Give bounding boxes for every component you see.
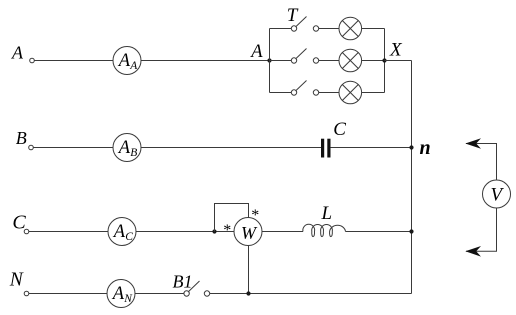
capacitor C — [321, 139, 331, 158]
wire (voltmeter bottom lead) — [466, 208, 497, 251]
wire — [346, 231, 412, 233]
svg-text:B: B — [130, 147, 137, 159]
junction dot (bank input) — [267, 58, 271, 62]
switch B1 — [184, 281, 210, 296]
wire (wattmeter to neutral) — [248, 246, 250, 294]
node A (bank input) label — [249, 42, 263, 62]
svg-text:A: A — [117, 138, 131, 158]
node N label — [9, 270, 24, 291]
svg-text:B: B — [16, 128, 27, 148]
svg-text:A: A — [112, 222, 126, 242]
svg-text:N: N — [123, 293, 133, 305]
svg-text:B1: B1 — [173, 272, 193, 292]
inductor L — [303, 224, 346, 236]
label T — [287, 5, 299, 26]
wire — [262, 231, 303, 233]
wire — [141, 60, 270, 62]
wire — [29, 293, 107, 295]
svg-text:A: A — [111, 284, 125, 304]
ammeter A_B — [113, 134, 141, 162]
wire — [135, 293, 184, 295]
wire (right bus) — [411, 61, 413, 294]
wire (voltmeter top lead) — [466, 144, 497, 181]
svg-text:C: C — [125, 231, 133, 243]
svg-text:T: T — [287, 5, 299, 26]
wire (voltage coil tap) — [215, 204, 249, 232]
wire — [362, 60, 385, 62]
label L — [321, 203, 333, 224]
junction dot (wattmeter/neutral) — [246, 291, 250, 295]
wire — [136, 231, 234, 233]
wattmeter W — [234, 218, 262, 246]
label B1 — [173, 272, 193, 292]
wire — [319, 28, 339, 30]
arrowhead (voltmeter top probe) — [465, 138, 481, 149]
svg-text:n: n — [420, 137, 431, 159]
switch (middle lamp branch) — [291, 49, 318, 64]
terminal A — [30, 58, 35, 63]
node n junction dot — [409, 145, 413, 149]
node B label — [16, 128, 27, 148]
svg-text:C: C — [333, 119, 346, 140]
asterisk (current coil) — [223, 222, 231, 239]
wire — [362, 92, 385, 94]
svg-text:A: A — [117, 51, 131, 71]
terminal C — [24, 229, 29, 234]
ammeter A_A — [113, 47, 141, 75]
wire — [270, 60, 292, 62]
node X junction dot — [382, 58, 386, 62]
node A label — [11, 43, 24, 63]
svg-text:A: A — [129, 60, 138, 72]
svg-text:N: N — [9, 270, 24, 291]
switch T — [291, 17, 318, 32]
wire — [29, 231, 108, 233]
asterisk (voltage coil) — [251, 207, 259, 224]
wire — [319, 60, 339, 62]
wire — [141, 147, 321, 149]
wire — [34, 60, 113, 62]
lamp HL2 — [339, 49, 362, 72]
lamp HL1 — [339, 17, 362, 40]
svg-text:A: A — [249, 42, 263, 62]
junction dot (wattmeter voltage tap) — [212, 229, 216, 233]
wire — [270, 28, 292, 30]
svg-text:*: * — [223, 222, 231, 239]
wire — [362, 28, 385, 30]
ammeter A_N — [107, 280, 135, 308]
wire — [270, 92, 292, 94]
label C (capacitor) — [333, 119, 346, 140]
node X label — [389, 40, 403, 61]
svg-text:X: X — [389, 40, 403, 61]
svg-text:A: A — [11, 43, 24, 63]
svg-text:W: W — [241, 223, 258, 243]
arrowhead (voltmeter bottom probe) — [465, 246, 481, 257]
wire — [319, 92, 339, 94]
svg-text:L: L — [321, 203, 333, 224]
ammeter A_C — [108, 218, 136, 246]
terminal N — [24, 291, 29, 296]
wire (lamp bank right bus) — [384, 29, 386, 93]
wire — [210, 293, 412, 295]
wire — [330, 147, 411, 149]
wire — [33, 147, 113, 149]
voltmeter V — [483, 180, 511, 208]
switch (bottom lamp branch) — [291, 81, 318, 96]
lamp HL3 — [339, 81, 362, 104]
terminal B — [29, 145, 34, 150]
junction dot (phase C to bus) — [409, 229, 413, 233]
wire (lamp bank left bus) — [269, 29, 271, 93]
node C label — [12, 212, 26, 234]
node n label — [420, 137, 431, 159]
svg-text:V: V — [491, 185, 505, 206]
wire — [385, 60, 412, 62]
